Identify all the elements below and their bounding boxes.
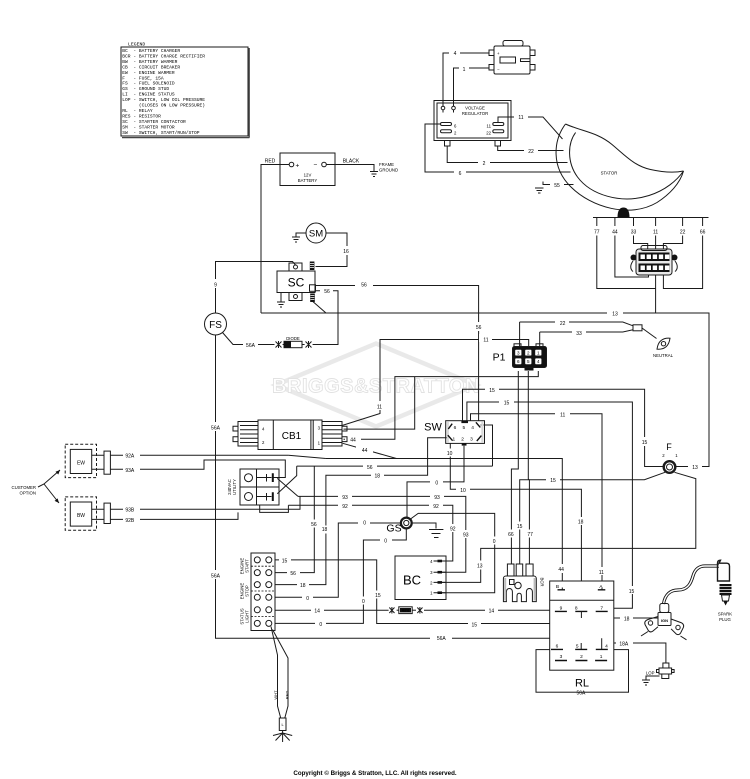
svg-text:UTILITY: UTILITY (232, 479, 237, 495)
svg-text:CUSTOMER: CUSTOMER (11, 485, 36, 490)
svg-text:OPTION: OPTION (20, 491, 36, 496)
svg-text:STOP: STOP (245, 585, 250, 597)
svg-text:92B: 92B (125, 518, 135, 524)
svg-text:4: 4 (605, 643, 608, 649)
svg-text:SW: SW (424, 422, 442, 434)
svg-text:15: 15 (375, 593, 381, 599)
svg-text:RL: RL (575, 678, 589, 690)
svg-text:14: 14 (489, 609, 495, 615)
svg-text:77: 77 (527, 532, 533, 538)
svg-text:5: 5 (462, 425, 465, 431)
svg-text:LI - ENGINE STATUS: LI - ENGINE STATUS (122, 92, 175, 98)
svg-text:VOLTAGE: VOLTAGE (465, 106, 485, 111)
svg-text:LOP: LOP (646, 671, 655, 676)
svg-text:44: 44 (362, 448, 368, 454)
svg-text:SM: SM (309, 229, 323, 240)
svg-text:16: 16 (343, 249, 349, 255)
svg-text:4: 4 (454, 51, 457, 57)
svg-text:1: 1 (537, 350, 540, 355)
svg-text:BATTERY: BATTERY (298, 178, 318, 183)
svg-text:9: 9 (214, 283, 217, 289)
svg-text:11: 11 (487, 124, 492, 129)
svg-text:56: 56 (324, 289, 330, 295)
svg-text:2: 2 (461, 436, 464, 442)
svg-text:9: 9 (560, 605, 563, 611)
svg-text:3: 3 (470, 436, 473, 442)
svg-text:0: 0 (493, 539, 496, 545)
svg-text:1: 1 (452, 436, 455, 442)
svg-text:15: 15 (629, 589, 635, 595)
svg-text:BLACK: BLACK (343, 159, 360, 165)
svg-text:77: 77 (594, 230, 600, 236)
svg-text:56: 56 (476, 325, 482, 331)
svg-text:22: 22 (528, 149, 534, 155)
svg-text:8: 8 (575, 605, 578, 611)
svg-text:EW - ENGINE WARMER: EW - ENGINE WARMER (122, 70, 175, 76)
svg-text:+: + (296, 163, 300, 170)
svg-text:NEUTRAL: NEUTRAL (653, 353, 674, 358)
svg-text:STATOR: STATOR (601, 171, 618, 176)
svg-text:22: 22 (560, 321, 566, 327)
svg-text:56: 56 (290, 571, 296, 577)
svg-text:11: 11 (377, 405, 382, 411)
svg-text:5: 5 (576, 643, 579, 649)
svg-text:56: 56 (311, 522, 317, 528)
svg-text:GROUND: GROUND (379, 168, 398, 173)
svg-text:10: 10 (460, 488, 466, 494)
svg-text:GS - GROUND STUD: GS - GROUND STUD (122, 86, 169, 92)
svg-text:DIODE: DIODE (286, 336, 300, 341)
svg-text:6: 6 (517, 359, 520, 364)
svg-text:RES: RES (402, 609, 410, 613)
svg-text:93: 93 (342, 495, 348, 501)
svg-text:6: 6 (556, 643, 559, 649)
svg-text:15: 15 (550, 478, 556, 484)
svg-text:EW: EW (77, 460, 85, 466)
svg-text:44: 44 (350, 438, 356, 444)
svg-text:93: 93 (463, 533, 469, 539)
svg-text:SPARK: SPARK (718, 612, 732, 617)
svg-text:66: 66 (700, 230, 706, 236)
svg-text:15: 15 (472, 623, 478, 629)
svg-text:SM - STARTER MOTOR: SM - STARTER MOTOR (122, 124, 175, 130)
svg-text:FRAME: FRAME (379, 162, 394, 167)
svg-text:P1: P1 (493, 352, 506, 364)
svg-text:START: START (245, 559, 250, 573)
svg-text:FS - FUEL SOLENOID: FS - FUEL SOLENOID (122, 81, 175, 87)
svg-text:0: 0 (363, 521, 366, 527)
svg-text:56A: 56A (211, 574, 221, 580)
svg-text:56A: 56A (211, 426, 221, 432)
svg-text:22: 22 (680, 230, 686, 236)
svg-text:BCR: BCR (540, 577, 545, 586)
svg-text:2: 2 (527, 350, 530, 355)
svg-text:0: 0 (362, 599, 365, 605)
svg-text:7: 7 (600, 605, 603, 611)
svg-text:11: 11 (653, 230, 658, 236)
svg-text:14: 14 (314, 609, 320, 615)
svg-text:15: 15 (504, 401, 510, 407)
svg-text:56A: 56A (576, 691, 586, 697)
svg-text:11: 11 (560, 413, 565, 419)
svg-text:18: 18 (578, 520, 584, 526)
svg-text:F: F (666, 442, 672, 452)
svg-text:18: 18 (624, 617, 630, 623)
svg-text:11: 11 (518, 115, 523, 121)
svg-text:15: 15 (642, 440, 648, 446)
svg-text:REGULATOR: REGULATOR (462, 111, 488, 116)
svg-text:3: 3 (517, 350, 520, 355)
svg-text:92: 92 (450, 527, 456, 533)
svg-text:BW: BW (77, 513, 85, 519)
svg-text:BCR - BATTERY CHARGE RECTIFIER: BCR - BATTERY CHARGE RECTIFIER (122, 53, 205, 59)
svg-text:6: 6 (459, 171, 462, 177)
svg-text:15: 15 (489, 388, 495, 394)
svg-text:11: 11 (483, 338, 488, 344)
svg-text:PLUG: PLUG (719, 617, 731, 622)
svg-text:44: 44 (558, 567, 564, 573)
svg-text:92A: 92A (125, 454, 135, 460)
svg-text:RES - RESISTOR: RES - RESISTOR (122, 114, 161, 120)
svg-text:15: 15 (282, 558, 288, 564)
svg-text:92: 92 (342, 504, 348, 510)
svg-text:CB1: CB1 (282, 431, 302, 442)
svg-text:55: 55 (554, 183, 560, 189)
svg-text:56A: 56A (246, 343, 256, 349)
svg-text:F - FUSE, 15A: F - FUSE, 15A (122, 75, 164, 81)
svg-text:33: 33 (576, 331, 582, 337)
svg-text:11: 11 (599, 570, 604, 576)
svg-text:93: 93 (434, 495, 440, 501)
svg-text:92: 92 (433, 504, 439, 510)
svg-text:4: 4 (471, 425, 474, 431)
svg-text:RED: RED (265, 159, 276, 165)
svg-text:0: 0 (435, 481, 438, 487)
svg-text:SC: SC (288, 276, 305, 290)
svg-text:RED: RED (285, 691, 290, 700)
svg-text:3: 3 (560, 654, 563, 660)
svg-text:−: − (314, 162, 318, 169)
svg-text:18: 18 (322, 527, 328, 533)
svg-text:Copyright © Briggs & Stratton,: Copyright © Briggs & Stratton, LLC. All … (293, 770, 456, 777)
svg-text:33: 33 (631, 230, 637, 236)
svg-text:18: 18 (375, 474, 381, 480)
svg-text:18: 18 (300, 583, 306, 589)
svg-text:WHT: WHT (273, 690, 278, 700)
svg-text:56: 56 (367, 465, 373, 471)
svg-text:10: 10 (447, 451, 453, 457)
svg-text:SW - SWITCH, START/RUN/STOP: SW - SWITCH, START/RUN/STOP (122, 130, 199, 136)
svg-text:CB - CIRCUIT BREAKER: CB - CIRCUIT BREAKER (122, 64, 180, 70)
svg-text:13: 13 (612, 312, 618, 318)
svg-text:13: 13 (477, 564, 483, 570)
svg-text:BC: BC (403, 573, 421, 588)
svg-text:2: 2 (483, 161, 486, 167)
svg-text:13: 13 (692, 465, 698, 471)
svg-text:6: 6 (454, 425, 457, 431)
svg-text:2: 2 (580, 654, 583, 660)
svg-text:56A: 56A (437, 636, 447, 642)
svg-text:15: 15 (517, 524, 523, 530)
svg-text:93A: 93A (125, 468, 135, 474)
svg-text:0: 0 (319, 622, 322, 628)
svg-text:1: 1 (600, 654, 603, 660)
svg-text:5: 5 (527, 359, 530, 364)
svg-text:LEGEND: LEGEND (128, 42, 145, 48)
svg-text:22: 22 (486, 131, 491, 136)
svg-text:0: 0 (306, 596, 309, 602)
svg-text:GS: GS (386, 523, 401, 535)
svg-text:FS: FS (209, 320, 222, 331)
svg-text:0: 0 (384, 539, 387, 545)
svg-text:44: 44 (612, 230, 618, 236)
svg-text:BC - BATTERY CHARGER: BC - BATTERY CHARGER (122, 48, 180, 54)
svg-text:LIGHT: LIGHT (245, 610, 250, 623)
svg-text:BW - BATTERY WARMER: BW - BATTERY WARMER (122, 59, 177, 65)
svg-text:(CLOSES ON LOW PRESSURE): (CLOSES ON LOW PRESSURE) (122, 103, 205, 109)
svg-text:RL - RELAY: RL - RELAY (122, 108, 153, 114)
svg-text:93B: 93B (125, 508, 135, 514)
svg-text:SC - STARTER CONTACTOR: SC - STARTER CONTACTOR (122, 119, 186, 125)
svg-text:BRIGGS&STRATTON: BRIGGS&STRATTON (272, 376, 480, 398)
svg-text:18A: 18A (619, 642, 629, 648)
svg-text:12V: 12V (304, 173, 312, 178)
svg-text:66: 66 (508, 532, 514, 538)
svg-text:56: 56 (361, 283, 367, 289)
svg-text:LOP - SWITCH, LOW OIL PRESSURE: LOP - SWITCH, LOW OIL PRESSURE (122, 97, 205, 103)
svg-text:1: 1 (463, 67, 466, 73)
svg-text:4: 4 (537, 359, 540, 364)
svg-text:IGN: IGN (661, 618, 668, 623)
